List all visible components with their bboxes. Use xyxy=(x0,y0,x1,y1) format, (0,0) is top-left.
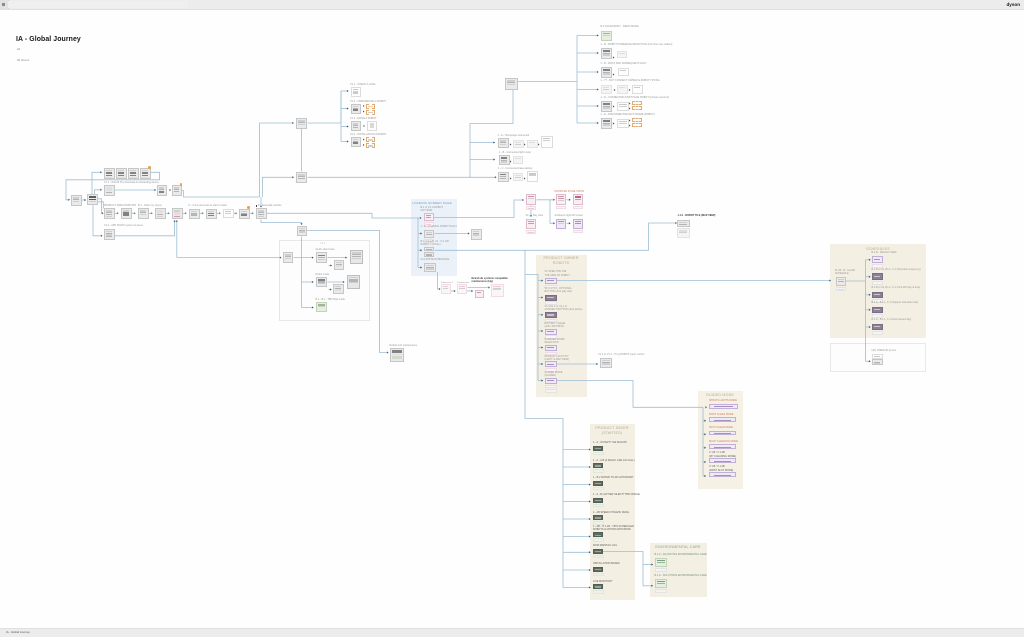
wire P2 to P3 arrowhead xyxy=(569,199,571,201)
node saver row6 ghost xyxy=(593,538,604,542)
node accessory row5 orange b xyxy=(632,106,642,111)
node accessory row6 orange b xyxy=(632,123,642,128)
arrowhead into guided row1 xyxy=(705,406,707,408)
wire saver feeder 5 xyxy=(563,518,591,520)
label guided row6 xyxy=(709,465,733,472)
node chain 9 xyxy=(239,209,250,219)
label homepage row3 xyxy=(498,167,532,170)
node top gateway xyxy=(505,78,518,90)
wire product owner row 7 xyxy=(538,380,543,382)
wire quickstart to doc arrowhead xyxy=(345,256,347,258)
label V1.2 app system xyxy=(104,224,143,227)
node day view P4 xyxy=(556,219,567,229)
wire accessory row 6 xyxy=(577,122,599,124)
node day view P5 xyxy=(573,219,584,229)
wire homepage row 2 xyxy=(470,159,495,161)
label maintenance box1 xyxy=(441,282,453,285)
wire start A to B arrowhead xyxy=(84,199,86,201)
wire chain link 1 xyxy=(115,212,118,214)
node accessory row6 c1 xyxy=(617,119,629,128)
wire V1.2 box right to chain box5 xyxy=(115,221,175,236)
wire accessory row 4 xyxy=(577,89,599,91)
wire maintenance link1 xyxy=(451,290,456,292)
wire saver feeder 8 arrowhead xyxy=(589,569,591,571)
arrowhead into P2 xyxy=(553,199,555,201)
label robot mode xyxy=(316,273,330,276)
node fan row2 xyxy=(351,104,361,114)
arrowhead into homepage row3 xyxy=(495,176,497,178)
label schedules row4 xyxy=(872,301,919,304)
wire schedules distributor xyxy=(865,260,867,362)
wire loading feeder r4 xyxy=(418,267,422,269)
node saver row2 ghost xyxy=(593,469,604,473)
node accessory row5 orange a xyxy=(632,101,642,106)
label accessory row5 xyxy=(601,96,669,99)
label owner row2 xyxy=(545,287,572,294)
wire accessory row 2 xyxy=(577,52,599,54)
wire guided row 4 xyxy=(703,447,706,449)
node saver row2 xyxy=(593,463,603,468)
arrowhead into robot tile box xyxy=(675,222,677,224)
wire saver feeder 6 xyxy=(563,536,591,538)
wire fan column xyxy=(340,91,342,142)
panel PRODUCT OWNER ROBOTS title xyxy=(543,256,578,265)
top toolbar xyxy=(0,0,1024,10)
wire accessory row 3 xyxy=(577,71,599,73)
arrowhead homepage r3 link b xyxy=(524,177,526,179)
label saver row7 xyxy=(593,544,617,547)
node guided row2 xyxy=(709,417,736,422)
node schedules row4 ghost xyxy=(872,314,883,318)
wire schedules row 3 xyxy=(866,294,871,296)
wire loading distributor xyxy=(417,218,419,268)
wire loading feeder r2 xyxy=(418,233,422,235)
badge dot onboarding row xyxy=(148,166,151,169)
arrowhead accessory r4 link a xyxy=(614,89,616,91)
wire fan row 2 arrowhead xyxy=(347,107,349,109)
wire product owner row 1 arrowhead xyxy=(541,279,543,281)
node entry menu xyxy=(87,194,98,205)
wire maintenance link2 xyxy=(467,290,473,292)
node owner row5 xyxy=(545,345,557,351)
arrowhead homepage r2 link a xyxy=(510,160,512,162)
node maintenance doc xyxy=(491,284,504,297)
node loading row3 b xyxy=(424,252,434,257)
node accessory row6 xyxy=(601,118,612,129)
label maintenance box2 xyxy=(457,282,469,285)
label claim my dyson xyxy=(138,204,162,207)
node homepage row1 c3 xyxy=(541,136,553,149)
arrowhead into robots info box xyxy=(387,351,389,353)
node day view P6 ghost xyxy=(526,230,537,234)
label owner row3 xyxy=(545,305,583,312)
arrowhead into quickstart receiver xyxy=(280,256,282,258)
wire product owner row 4 arrowhead xyxy=(541,330,543,332)
bottom bar text xyxy=(6,630,30,634)
panel LOADING SCREEN PAGE title xyxy=(412,201,452,206)
wire saver feeder 2 arrowhead xyxy=(589,466,591,468)
node homepage row3 c2 xyxy=(527,171,538,182)
wire chain link 2 arrowhead xyxy=(134,212,136,214)
node maintenance box3 xyxy=(475,290,484,298)
arrowhead up into chain box5 a xyxy=(173,220,175,222)
panel LOADING SCREEN PAGE background xyxy=(411,199,457,276)
node day view P2 xyxy=(556,194,567,205)
label schedules row1 xyxy=(872,251,897,254)
node fan row1 xyxy=(351,87,361,97)
node schedules timer b xyxy=(872,359,883,365)
label loading row4 xyxy=(421,258,450,261)
label schedules row5 xyxy=(872,318,912,321)
panel ENVIRONMENTAL CARE background xyxy=(650,543,707,597)
wire accessory row 1 xyxy=(577,35,599,37)
node saver row8 xyxy=(593,567,603,572)
label fan row2 xyxy=(350,100,386,103)
wire chain link 6 xyxy=(200,212,203,214)
label saver row3 xyxy=(593,476,634,479)
wire guided row 6 xyxy=(703,475,706,477)
wire owner r7 to guided mode xyxy=(557,381,704,408)
label saver row2 xyxy=(593,459,635,462)
node env row2 xyxy=(655,579,668,588)
label env row1 xyxy=(655,553,707,556)
arrowhead homepage r3 link a xyxy=(510,177,512,179)
bottom status bar xyxy=(0,628,1024,637)
arrowhead into loading row1 xyxy=(420,217,422,219)
node homepage row1 c2 xyxy=(527,140,538,148)
wire fan row 3 arrowhead xyxy=(347,125,349,127)
node maintenance box1 xyxy=(441,284,451,294)
node schedules row4 xyxy=(872,307,883,314)
node loading row2 companion xyxy=(471,229,482,240)
node homepage row1 xyxy=(498,138,509,148)
node saver row3 xyxy=(593,481,603,486)
wire junction up to connected box2 xyxy=(263,177,293,197)
node guided row6 xyxy=(709,472,736,477)
wire schedules row 5 xyxy=(866,326,871,328)
wire owner r6 to V1.4 xyxy=(557,363,599,365)
wire saver feeder 4 xyxy=(563,501,591,503)
wire schedules row 6 xyxy=(866,360,871,362)
node schedules row2 xyxy=(872,273,883,280)
wire robot sub link xyxy=(329,289,332,291)
wire quickstart to doc xyxy=(328,257,348,259)
node accessory row2 c1 xyxy=(617,51,627,58)
arrowhead into P4 xyxy=(553,222,555,224)
node chain 8 optional xyxy=(223,209,234,218)
wire homepage row 2 arrowhead xyxy=(493,158,495,160)
label owner row4 xyxy=(545,322,566,329)
label guided row5 xyxy=(709,451,736,458)
label profiter red xyxy=(555,190,585,193)
node owner row7 ghost xyxy=(545,385,557,389)
wire maintenance top link xyxy=(468,287,489,289)
label quick start mode xyxy=(316,248,335,251)
wire loading r1 to day view xyxy=(434,200,523,218)
wire saver feeder 1 arrowhead xyxy=(589,448,591,450)
wire B second output xyxy=(98,202,103,209)
wire product owner row 2 arrowhead xyxy=(541,296,543,298)
wire guided row 2 arrowhead xyxy=(704,420,706,422)
node fan row3 icon xyxy=(367,121,378,132)
node robot tile xyxy=(677,220,690,227)
node connected gate 1 xyxy=(296,118,307,129)
node fan row2 orange a xyxy=(366,104,376,109)
node connected gate 2 xyxy=(296,172,307,183)
wire maintenance link1 arrowhead xyxy=(454,290,456,292)
wire saver feeder 4 arrowhead xyxy=(589,500,591,502)
wire guided row 5 xyxy=(703,461,706,463)
label saver row1 xyxy=(593,441,627,444)
wire loading r2 companion xyxy=(435,233,470,235)
wire connected box2 to homepage rows xyxy=(308,176,496,178)
wire fan row 1 arrowhead xyxy=(347,90,349,92)
panel schedules extra white box xyxy=(830,343,926,372)
node V1.1 predownload xyxy=(104,185,115,196)
wire fan row 1 xyxy=(341,90,349,92)
arrowhead homepage r1 link b xyxy=(524,143,526,145)
toolbar tab shading xyxy=(8,1,188,8)
wire saver feeder 3 xyxy=(563,484,591,486)
wire schedules row 2 xyxy=(866,276,871,278)
arrowhead accessory r4 link b xyxy=(629,89,631,91)
label fan row1 xyxy=(350,83,376,86)
node schedules row3 xyxy=(872,292,883,299)
arrowhead into TBD box xyxy=(300,223,302,225)
wire chain link 5 arrowhead xyxy=(185,212,187,214)
node homepage row1 c1 xyxy=(513,140,524,148)
node chain 6 xyxy=(189,209,200,220)
wire main trunk south xyxy=(525,250,563,587)
node schedules row1 ghost xyxy=(872,264,883,268)
wire schedules row 4 xyxy=(866,309,871,311)
wire saver feeder 6 arrowhead xyxy=(589,535,591,537)
label V1.1 predownload xyxy=(104,181,159,184)
node onboarding step 4 xyxy=(140,168,151,179)
label quickstart receiver xyxy=(282,249,284,251)
node env row1 xyxy=(655,558,668,567)
wire product owner row 4 xyxy=(538,330,543,332)
node fan row4 orange b xyxy=(366,143,376,148)
node TBD gateway xyxy=(297,226,308,237)
wire chain box5 second riser xyxy=(176,221,178,258)
node accessory row4 a xyxy=(601,85,612,94)
node saver row7 ghost xyxy=(593,555,604,559)
wire loading feeder r2 arrowhead xyxy=(420,232,422,234)
wire green mode feeder xyxy=(302,307,314,309)
node schedules timer a xyxy=(872,354,883,359)
wire V1.1 box to detail box xyxy=(115,189,157,191)
label fan row3 xyxy=(350,117,377,120)
label schedules row3 xyxy=(872,286,921,289)
node chain 5 pairing xyxy=(172,208,183,219)
wire controls to loading page xyxy=(267,213,421,218)
wire saver feeder 7 arrowhead xyxy=(589,551,591,553)
node guided row1 xyxy=(709,404,738,409)
node claim detail 2 xyxy=(172,185,182,196)
label fan row4 xyxy=(350,133,386,136)
panel GUIDED MODE background xyxy=(698,391,743,489)
wire P4 to P5 arrowhead xyxy=(569,222,571,224)
node loading row2 xyxy=(424,230,434,239)
node schedules row3 ghost xyxy=(872,299,883,303)
node loading row2 ghost xyxy=(424,239,434,243)
wire product owner row 6 arrowhead xyxy=(541,363,543,365)
dyson logo text xyxy=(1006,2,1020,7)
node robot mode sub xyxy=(333,284,344,295)
arrowhead accessory r3 link xyxy=(613,73,615,75)
node schedules row5 ghost xyxy=(872,331,883,335)
wire env care row2 xyxy=(643,585,653,587)
wire guided row 3 xyxy=(703,433,706,435)
label V1.4 robot control xyxy=(598,353,644,356)
label saver row5 xyxy=(593,511,629,514)
node saver row1 ghost xyxy=(593,452,604,456)
wire robot mode feeder xyxy=(302,281,314,283)
node onboarding step 1 xyxy=(104,168,115,179)
node owner row4 xyxy=(545,329,557,335)
arrowhead fan row4 link a xyxy=(363,138,365,140)
arrowhead into onboarding row xyxy=(100,171,102,173)
arrowhead into P1 xyxy=(522,199,524,201)
node day view P5 ghost xyxy=(573,230,584,234)
drivers note xyxy=(17,58,29,62)
wire accessory fan column xyxy=(576,36,578,124)
node fan row4 xyxy=(351,137,361,148)
arrowhead into schedules box xyxy=(829,279,831,281)
arrowhead fan row4 link b xyxy=(363,144,365,146)
node robot mode xyxy=(316,277,328,288)
label schedules timer xyxy=(872,349,897,352)
panel V1.2 white sub-journeys box xyxy=(279,240,370,321)
wire quickstart sub link arrowhead xyxy=(330,264,332,266)
node fan row4 orange a xyxy=(366,137,376,142)
node accessory row3 xyxy=(601,67,612,78)
wire B down to V1.2 box xyxy=(93,205,101,236)
label owner row6 xyxy=(545,355,570,362)
node schedules row5 xyxy=(872,324,883,331)
node accessory row1 green xyxy=(601,31,612,41)
toolbar left icon xyxy=(2,3,5,6)
label saver row8 xyxy=(593,562,620,565)
node day view P3 xyxy=(573,194,584,205)
arrowhead into maintenance box1 xyxy=(439,288,441,290)
wire schedules row 1 arrowhead xyxy=(869,259,871,261)
node owner row5 ghost xyxy=(545,352,557,356)
node chain 7 xyxy=(206,209,217,220)
label saver row6 xyxy=(593,525,634,532)
label tbd plan mode xyxy=(316,298,346,301)
arrowhead between V1.1 details xyxy=(169,189,171,191)
wire saver feeder 2 xyxy=(563,466,591,468)
node fan row3 xyxy=(351,121,361,131)
arrowhead into maintenance doc xyxy=(488,286,490,288)
label env row2 xyxy=(655,574,707,577)
label saver row9 xyxy=(593,580,612,583)
wire P1 to P2 and P4 xyxy=(537,199,555,201)
node owner row3 xyxy=(545,312,557,318)
wire P1 branch down xyxy=(550,200,554,224)
node loading row4 xyxy=(424,263,436,272)
wire schedules row 1 xyxy=(866,259,871,261)
node schedules row2 ghost xyxy=(872,281,883,285)
arrowhead fan row3 link xyxy=(364,125,366,127)
wire product owner row 1 xyxy=(538,280,543,282)
label accessory row2 xyxy=(601,43,673,46)
label loading row1 xyxy=(421,206,444,213)
wire fan row 3 xyxy=(341,126,349,128)
wire saver feeder 1 xyxy=(563,449,591,451)
label owner row7 xyxy=(545,371,563,378)
wire schedules row 3 arrowhead xyxy=(869,294,871,296)
bullet essential controls xyxy=(256,205,258,207)
wire controls down to TBD box xyxy=(261,220,302,225)
node loading row1 ghost xyxy=(424,222,434,227)
node tbd plan green xyxy=(316,302,328,312)
node chain 1 precondition xyxy=(104,208,115,219)
wire homepage row 1 xyxy=(470,142,495,144)
node env row1 ghost xyxy=(655,568,668,573)
node quick start doc xyxy=(350,250,364,264)
wire schedules box to distributor xyxy=(846,280,866,282)
node owner row7 xyxy=(545,378,557,384)
node owner row2 ghost xyxy=(545,301,557,305)
node accessory row4 b xyxy=(617,85,628,94)
wire guided row 6 arrowhead xyxy=(704,475,706,477)
wire loading r3 long line xyxy=(435,223,676,250)
wire B right down to chain xyxy=(98,199,103,214)
wire chain link 9 xyxy=(250,212,253,214)
arrowhead accessory r5 orange a xyxy=(629,102,631,104)
node chain 10 controls xyxy=(256,208,267,219)
wire robot to doc arrowhead xyxy=(343,281,345,283)
node fan row2 orange b xyxy=(366,110,376,115)
node saver row9 ghost xyxy=(593,590,604,594)
node saver row6 xyxy=(593,532,603,537)
wire loading feeder r3 arrowhead xyxy=(420,249,422,251)
wire chain link 1 arrowhead xyxy=(117,212,119,214)
node V1.4 robot control xyxy=(600,358,613,369)
node day view P1 xyxy=(526,194,537,205)
badge dot claim detail xyxy=(180,183,183,186)
label robots info xyxy=(390,344,418,347)
node schedules gate ghost xyxy=(836,287,847,292)
arrowhead into connected box1 xyxy=(292,122,294,124)
wire accessory row 6 arrowhead xyxy=(597,122,599,124)
label few elements xyxy=(189,204,228,207)
wire env care row1 xyxy=(643,564,653,566)
node schedules row1 xyxy=(872,256,883,263)
node chain 4 xyxy=(155,208,166,219)
label guided row2 xyxy=(709,413,733,416)
arrowhead into P6 xyxy=(530,215,532,217)
panel ENVIRONMENTAL CARE title xyxy=(655,545,700,550)
wire product owner row 3 arrowhead xyxy=(541,314,543,316)
node homepage row3 c1 xyxy=(513,173,523,181)
arrowhead accessory r2 link xyxy=(613,56,615,58)
wire chain link 4 xyxy=(166,212,169,214)
arrowhead into chain box 1 xyxy=(102,212,104,214)
wire TBD to robots info xyxy=(307,231,387,353)
node saver row1 xyxy=(593,446,603,451)
wire saver r7 to env care xyxy=(603,552,643,586)
arrowhead into V1.1 box xyxy=(100,189,102,191)
wire accessory row 5 xyxy=(577,105,599,107)
label loading row3 xyxy=(421,240,449,247)
label maintenance title xyxy=(472,277,508,284)
arrowhead homepage r1 link c xyxy=(538,143,540,145)
wire quickstart feeder arrowhead xyxy=(312,256,314,258)
